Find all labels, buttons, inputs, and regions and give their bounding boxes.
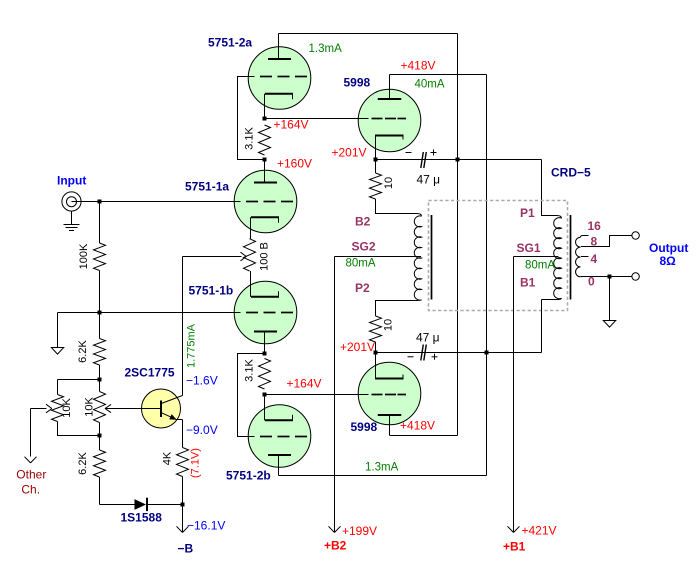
secondary winding xyxy=(581,236,589,238)
svg-text:2SC1775: 2SC1775 xyxy=(125,365,175,379)
terminal upper xyxy=(632,232,639,239)
wire SG2 tap xyxy=(335,256,422,258)
core W2 xyxy=(431,215,433,300)
triode V2a 5751-2a xyxy=(248,47,311,110)
core W1 xyxy=(570,215,572,300)
wire V2b grid rail xyxy=(238,354,265,437)
wire input to V1a grid xyxy=(72,201,241,203)
Q1 base wire with arrow to VR3 wiper xyxy=(106,408,160,410)
wire to left pot top xyxy=(58,379,100,381)
svg-text:8: 8 xyxy=(591,235,598,249)
Q1 collector xyxy=(162,396,183,404)
svg-text:16: 16 xyxy=(588,219,602,233)
Q1 base bar xyxy=(160,401,162,418)
svg-text:P1: P1 xyxy=(520,206,535,220)
svg-text:+201V: +201V xyxy=(332,146,367,160)
wire P1 feed xyxy=(542,160,557,216)
wire V3 plate lead xyxy=(389,75,391,100)
arrow -B supply xyxy=(182,505,184,533)
svg-text:40mA: 40mA xyxy=(415,79,445,91)
resistor R2 3.1K xyxy=(259,125,271,155)
wire R7 to B2 xyxy=(376,199,417,214)
svg-text:−1.6V: −1.6V xyxy=(186,373,218,387)
wire left pot bottom xyxy=(58,422,100,436)
node ground rail xyxy=(98,311,102,315)
rail A from V2a plate xyxy=(457,34,459,436)
arrow other channel xyxy=(25,457,31,463)
svg-text:6.2K: 6.2K xyxy=(77,340,89,363)
svg-text:8Ω: 8Ω xyxy=(660,254,677,268)
wire V1b cathode lead xyxy=(250,271,252,297)
svg-text:10K: 10K xyxy=(83,397,95,417)
arrow +B2 xyxy=(329,526,335,532)
node +160V xyxy=(263,158,267,162)
svg-text:4K: 4K xyxy=(161,451,173,465)
svg-text:80mA: 80mA xyxy=(346,258,376,270)
node +164V lower xyxy=(263,393,267,397)
svg-text:3.1K: 3.1K xyxy=(243,359,255,382)
svg-text:+B1: +B1 xyxy=(503,539,526,553)
svg-text:B1: B1 xyxy=(520,276,536,290)
triode V1a 5751-1a xyxy=(234,170,297,233)
node rail A / C1 xyxy=(456,158,460,162)
wire V2a plate lead xyxy=(278,34,280,60)
wire node to lower 5998 grid xyxy=(265,394,369,396)
wire V4 plate to rail A xyxy=(390,435,458,437)
winding W1 P1-SG1-B1 xyxy=(557,216,562,219)
potentiometer VR2 10K left xyxy=(52,395,64,422)
wire V2b cathode lead xyxy=(264,395,266,421)
node VR3 bottom xyxy=(98,434,102,438)
node rail B / C2 xyxy=(485,351,489,355)
resistor R5 6.2K lower xyxy=(94,450,106,477)
transistor Q1 2SC1775 xyxy=(142,389,181,428)
svg-text:+418V: +418V xyxy=(401,59,436,73)
Q1 emitter with arrow xyxy=(162,413,177,420)
node +164V upper xyxy=(263,117,267,121)
svg-text:CRD−5: CRD−5 xyxy=(551,166,591,180)
resistor R4 6.2K upper xyxy=(94,339,106,366)
svg-text:+B2: +B2 xyxy=(324,539,347,553)
potentiometer VR1 100B xyxy=(244,239,256,271)
svg-text:−9.0V: −9.0V xyxy=(186,423,218,437)
resistor R8 10 lower xyxy=(370,316,382,342)
tap 0 wire xyxy=(581,276,632,278)
node V4 cathode +201V xyxy=(374,351,378,355)
input jack J1 xyxy=(62,192,81,211)
ground symbol output xyxy=(603,321,615,328)
power tube V4 5998 lower xyxy=(358,362,421,425)
wire VR1 wiper rail down xyxy=(182,257,184,396)
wire V3 plate to rail B xyxy=(390,74,487,76)
triode V1b 5751-1b xyxy=(234,281,297,344)
svg-text:P2: P2 xyxy=(355,281,370,295)
svg-text:5751-2a: 5751-2a xyxy=(208,36,252,50)
svg-text:5998: 5998 xyxy=(351,420,378,434)
svg-text:5751-1a: 5751-1a xyxy=(185,180,229,194)
svg-text:Ch.: Ch. xyxy=(21,482,40,496)
wire V4 plate lead xyxy=(389,415,391,436)
resistor R1 100K xyxy=(94,243,106,271)
svg-text:SG2: SG2 xyxy=(352,239,376,253)
resistor R6 4K xyxy=(177,448,189,477)
wire V2a plate to rail A xyxy=(279,33,458,35)
wire to left ground xyxy=(57,313,59,348)
wiper arrow VR1 xyxy=(183,256,242,258)
svg-text:−16.1V: −16.1V xyxy=(187,519,225,533)
svg-text:0: 0 xyxy=(588,275,595,289)
svg-text:+160V: +160V xyxy=(277,157,312,171)
ground rail wire to V1b grid xyxy=(58,312,241,314)
wire bottom left row xyxy=(100,504,135,506)
rail B vertical xyxy=(486,75,488,476)
ground at input jack xyxy=(71,211,73,224)
node 0 tap xyxy=(608,275,612,279)
diode D1 1S1588 xyxy=(135,499,147,510)
svg-text:10K: 10K xyxy=(61,398,73,418)
triode V2b 5751-2b xyxy=(248,405,311,468)
svg-text:(7.1V): (7.1V) xyxy=(190,448,202,478)
wire V2a cathode lead xyxy=(264,94,266,119)
svg-text:6.2K: 6.2K xyxy=(77,452,89,475)
wire cathode row to P1 xyxy=(376,159,542,161)
svg-text:+418V: +418V xyxy=(400,419,435,433)
svg-text:Input: Input xyxy=(57,174,86,188)
potentiometer VR3 10K right xyxy=(94,392,106,423)
wire lower cathode row to B1 xyxy=(376,352,542,354)
svg-text:+199V: +199V xyxy=(342,524,377,538)
node V3 cathode +201V xyxy=(374,158,378,162)
svg-text:4: 4 xyxy=(591,252,598,266)
wire V1a cathode lead xyxy=(250,217,252,239)
wire R8 to P2 xyxy=(376,301,417,317)
arrow +B1 xyxy=(508,526,514,532)
wire V1b plate lead xyxy=(264,332,266,354)
svg-text:−B: −B xyxy=(178,541,194,555)
svg-text:Output: Output xyxy=(649,241,688,255)
wire node to 5998 grid xyxy=(265,118,369,120)
terminal lower xyxy=(632,273,639,280)
wire V3 cathode lead xyxy=(375,136,377,160)
wire emitter rail down to R6 xyxy=(182,420,184,448)
capacitor C2 47u xyxy=(421,345,424,361)
wire junction down to R1 xyxy=(99,202,101,244)
winding W2 B2-SG2-P2 xyxy=(417,214,422,217)
wire V2b plate to rail B xyxy=(279,475,487,477)
svg-text:5751-2b: 5751-2b xyxy=(226,468,271,482)
svg-text:10: 10 xyxy=(383,177,395,189)
wire V4 cathode lead xyxy=(375,353,377,379)
svg-text:1.775mA: 1.775mA xyxy=(186,323,198,368)
svg-text:100 B: 100 B xyxy=(258,242,270,271)
svg-text:SG1: SG1 xyxy=(517,241,541,255)
svg-text:47 μ: 47 μ xyxy=(416,331,440,345)
svg-text:100K: 100K xyxy=(78,243,90,269)
wire V1a plate to +160V node xyxy=(264,160,266,184)
wire SG1 to +B1 xyxy=(513,257,515,533)
svg-text:47 μ: 47 μ xyxy=(417,173,441,187)
tap 4 wire xyxy=(581,256,589,258)
wire SG2 to +B2 xyxy=(334,257,336,533)
resistor R7 10 upper xyxy=(375,160,377,174)
svg-text:+421V: +421V xyxy=(522,523,557,537)
svg-text:5998: 5998 xyxy=(344,76,371,90)
node input junction xyxy=(98,200,102,204)
svg-text:1.3mA: 1.3mA xyxy=(309,43,343,55)
ground symbol left xyxy=(51,348,63,355)
transformer dashed box xyxy=(429,201,568,311)
resistor R3 3.1K lower xyxy=(259,359,271,390)
wiper arrow VR2 xyxy=(31,408,47,410)
wire 0 tap to ground xyxy=(609,277,611,321)
node V1b plate xyxy=(263,352,267,356)
node R4/VR2 junction xyxy=(98,378,102,382)
wire R1 to ground rail xyxy=(99,271,101,313)
svg-text:3.1K: 3.1K xyxy=(243,127,255,150)
wire V2b plate lead xyxy=(278,455,280,476)
wire to other channel xyxy=(30,409,32,457)
node -B junction xyxy=(181,503,185,507)
wire SG1 tap xyxy=(514,256,559,258)
wire V2a grid rail xyxy=(238,77,265,160)
wire diode to -B node xyxy=(148,504,183,506)
svg-text:+201V: +201V xyxy=(340,340,375,354)
svg-text:1.3mA: 1.3mA xyxy=(365,462,399,474)
tap 8 wire xyxy=(581,236,632,247)
svg-text:Other: Other xyxy=(16,468,46,482)
svg-text:10: 10 xyxy=(382,319,394,331)
wire B1 down xyxy=(541,300,543,353)
svg-text:5751-1b: 5751-1b xyxy=(189,283,234,297)
svg-text:+164V: +164V xyxy=(274,118,309,132)
power tube V3 5998 upper xyxy=(358,89,421,152)
svg-text:1S1588: 1S1588 xyxy=(121,510,163,524)
svg-text:+164V: +164V xyxy=(287,377,322,391)
capacitor C1 47u xyxy=(421,152,424,168)
svg-text:B2: B2 xyxy=(355,214,371,228)
svg-text:80mA: 80mA xyxy=(525,259,555,271)
